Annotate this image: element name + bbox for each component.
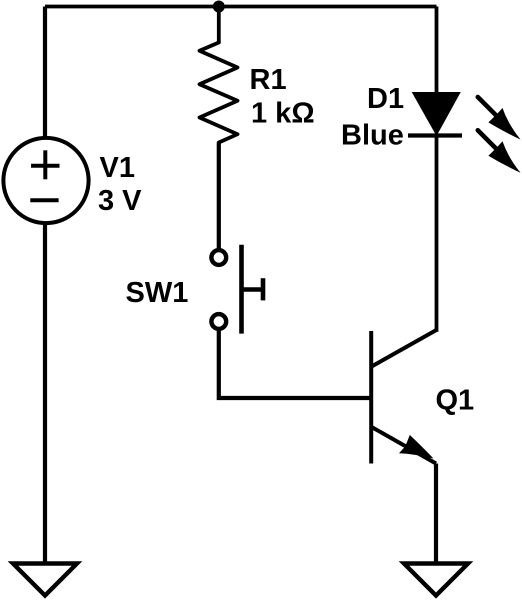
ground right [404, 564, 468, 596]
svg-text:3 V: 3 V [98, 185, 142, 217]
wire left column top [43, 7, 47, 138]
wire switch to base [219, 331, 371, 399]
svg-text:SW1: SW1 [126, 277, 189, 309]
transistor emitter arrowhead [399, 435, 434, 459]
wire top rail [45, 5, 437, 9]
svg-text:Blue: Blue [341, 120, 404, 152]
svg-text:D1: D1 [367, 83, 404, 115]
svg-text:Q1: Q1 [436, 385, 475, 417]
ground left [13, 564, 77, 596]
LED emission arrow 1 [478, 97, 521, 140]
switch SW1 pushbutton [211, 250, 226, 329]
wire middle column to resistor [217, 7, 221, 43]
wire resistor to switch [217, 143, 221, 250]
svg-text:R1: R1 [250, 64, 287, 96]
svg-text:1 kΩ: 1 kΩ [251, 98, 315, 130]
wire left column bottom [43, 224, 47, 564]
LED D1 triangle [413, 93, 460, 135]
resistor R1 [200, 43, 238, 143]
wire emitter to ground [434, 464, 438, 564]
LED cathode bar [408, 133, 462, 137]
svg-text:V1: V1 [100, 152, 135, 184]
wire collector to LED [435, 135, 439, 332]
node junction dot [213, 1, 225, 13]
LED emission arrow 2 [478, 130, 521, 173]
wire LED anode from rail [435, 7, 439, 95]
voltage source V1 [3, 138, 88, 223]
transistor Q1 [371, 329, 437, 463]
